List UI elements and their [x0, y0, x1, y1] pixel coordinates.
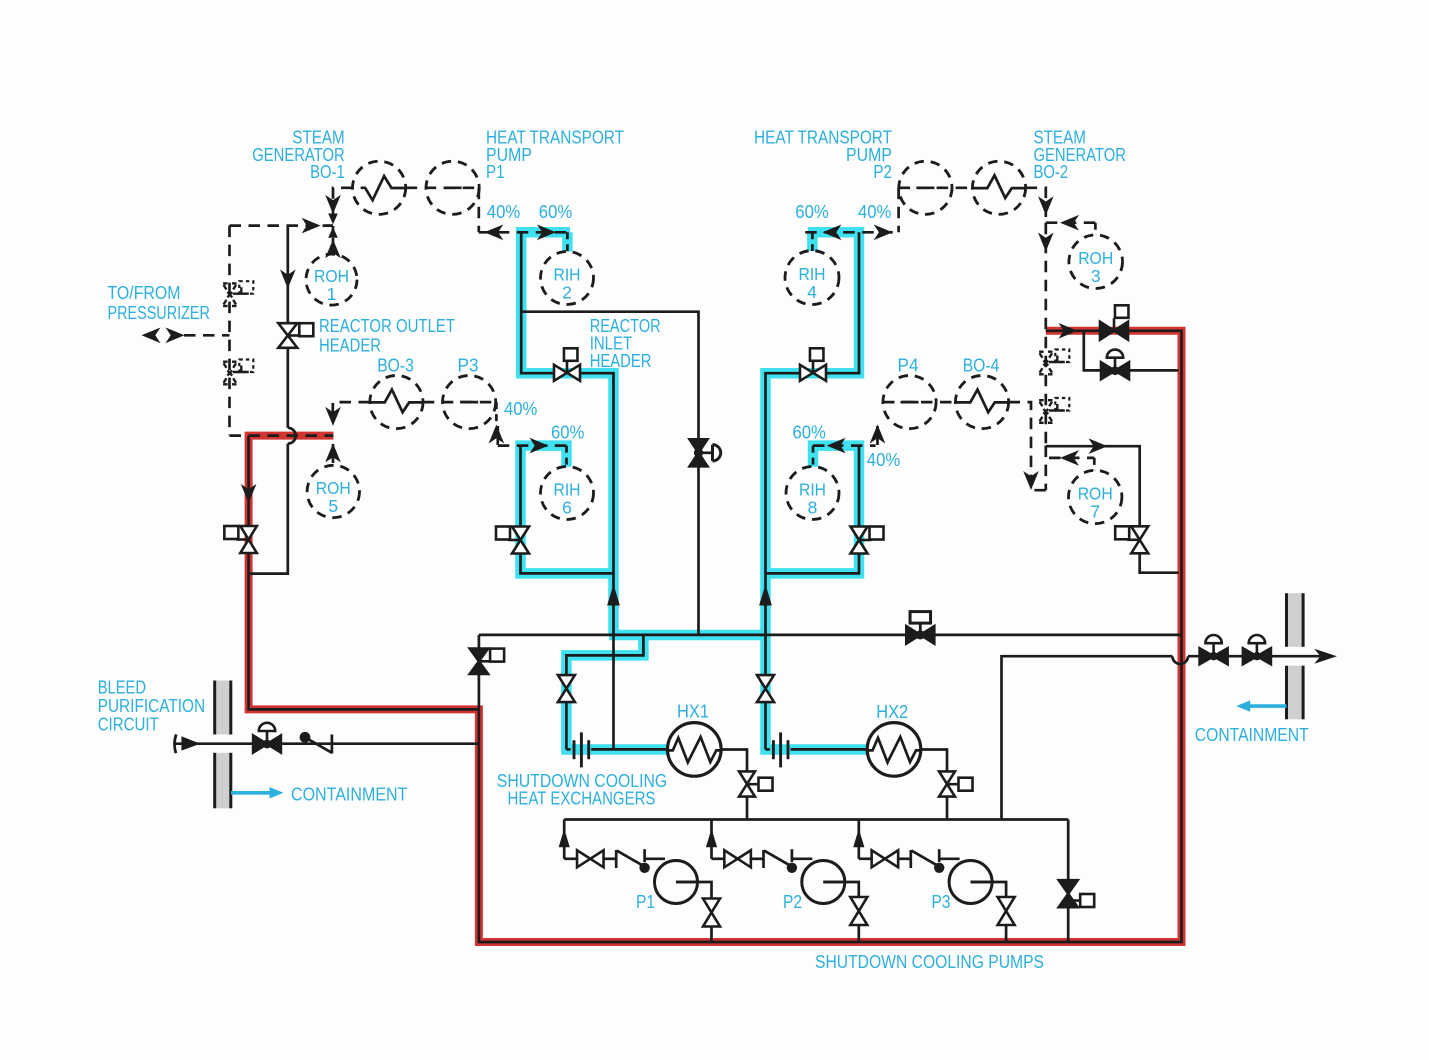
arrow: ROH5 up to red: [325, 443, 341, 462]
globe valve w/ dome: containment line 2: [1243, 635, 1271, 664]
header node RIH 6 (dashed circle): [541, 467, 594, 520]
flange/orifice set HX1 inlet: [574, 732, 589, 767]
arrow: into red line right: [1059, 323, 1078, 339]
svg-text:3: 3: [1091, 266, 1101, 286]
dashed valve: right standby lower: [1039, 398, 1069, 423]
svg-text:BO-2: BO-2: [1034, 162, 1069, 182]
wire: BO-3 dashed to red junction: [333, 402, 370, 419]
heat transport pump P3 (dashed circle): [443, 376, 496, 429]
svg-text:P2: P2: [873, 162, 892, 182]
cyan highlighted path: jog to HX1: [566, 630, 668, 750]
wire: jog centerline to HX1: [566, 635, 643, 750]
steam generator BO-3 (dashed circle w/ zigzag): [370, 376, 423, 429]
pump P3 suction/discharge piping: [859, 820, 1006, 943]
wire: P2 to BO-2 dashed connector: [899, 186, 973, 189]
wire: BO-1 to junction dashed: [333, 188, 353, 217]
pump P1 suction/discharge piping: [564, 820, 711, 943]
wire: P4 to BO-4 dashed connector: [883, 401, 956, 404]
valve: P1 discharge: [703, 899, 720, 927]
wire: reactor inlet header line (y=312): [521, 312, 698, 635]
wire: RIH6 loop black centerline: [521, 446, 615, 574]
arrow: 40% right (P2): [874, 225, 893, 241]
svg-text:5: 5: [328, 496, 338, 516]
arrow: from ROH1 up: [325, 239, 341, 258]
valve: main suction line (filled, x=920.3): [906, 612, 934, 644]
cyan highlighted path: RIH2 branch: [516, 227, 614, 635]
valve: HX1 inlet (x=566.4): [558, 675, 575, 702]
arrow: from BO-1 down: [325, 195, 341, 214]
wire: to/from pressurizer dashed stub: [184, 334, 230, 337]
svg-text:BO-3: BO-3: [377, 356, 414, 376]
svg-text:P3: P3: [932, 892, 951, 912]
svg-text:ROH: ROH: [1078, 248, 1113, 268]
header node ROH 5 (dashed circle): [307, 465, 359, 517]
header node ROH 3 (dashed circle): [1069, 235, 1123, 289]
svg-text:2: 2: [562, 283, 572, 303]
dashed valve pair: pressurizer line upper: [223, 281, 253, 306]
svg-text:P3: P3: [458, 356, 479, 376]
arrow: BO-4 jog down: [1023, 471, 1039, 490]
svg-text:REACTOR OUTLET: REACTOR OUTLET: [319, 316, 455, 336]
globe valve w/ dome: containment line 1: [1200, 635, 1228, 664]
svg-text:6: 6: [562, 498, 572, 518]
valve: reactor inlet header right (RIH4): [800, 348, 826, 381]
svg-text:BO-1: BO-1: [310, 162, 345, 182]
svg-text:ROH: ROH: [1078, 484, 1113, 504]
svg-text:PURIFICATION: PURIFICATION: [98, 696, 205, 716]
valve: HX2 inlet (x=765.5): [757, 675, 774, 702]
arrow: BO-2 down 2: [1038, 233, 1054, 252]
svg-text:BO-4: BO-4: [963, 356, 1000, 376]
arrow: 60% left (P2): [823, 225, 842, 241]
wire: red-line bypass w/ globe valve (top right): [1084, 331, 1179, 371]
pump P1 suction valve: [577, 850, 604, 867]
valve: reactor inlet header left (RIH2): [554, 348, 580, 381]
svg-text:7: 7: [1090, 502, 1100, 522]
arrow: P3 stub up: [489, 425, 505, 444]
wire: ROH5 stub dashed: [332, 444, 335, 466]
red highlighted shutdown-cooling flow path (thick red): [249, 331, 1182, 942]
svg-text:RIH: RIH: [554, 480, 581, 500]
valve: red line top right (filled, x=1114): [1100, 305, 1128, 340]
svg-text:P1: P1: [636, 892, 655, 912]
wire: P1 down-corner dashed: [477, 188, 480, 233]
svg-text:60%: 60%: [795, 201, 828, 222]
svg-text:8: 8: [808, 498, 818, 518]
steam generator BO-2 (dashed circle w/ zigzag): [972, 161, 1025, 214]
arrow: ROH3 left: [1060, 215, 1079, 231]
heat transport pump P2 (dashed circle): [899, 161, 952, 214]
steam generator BO-4 (dashed circle w/ zigzag): [955, 376, 1008, 429]
cyan arrow: containment left: [231, 787, 284, 798]
svg-text:SHUTDOWN COOLING PUMPS: SHUTDOWN COOLING PUMPS: [815, 952, 1044, 972]
svg-text:CONTAINMENT: CONTAINMENT: [1195, 725, 1309, 745]
svg-text:HX1: HX1: [677, 702, 709, 722]
arrow: 60% right (P1): [537, 225, 556, 241]
svg-text:P1: P1: [486, 162, 505, 182]
containment wall right (gray bars): [1287, 593, 1304, 719]
heat transport pump P1 (dashed circle): [426, 161, 479, 214]
dashed valve: right standby upper: [1039, 350, 1069, 375]
arrow: P2 drop up: [706, 829, 717, 848]
wire: BO-1 to P1 dashed connector: [406, 186, 480, 189]
svg-text:ROH: ROH: [316, 478, 351, 498]
globe valve w/ dome: red-line bypass: [1101, 350, 1129, 380]
shutdown cooling pump P2: [802, 861, 845, 904]
valve: P3 discharge: [998, 897, 1015, 925]
heat exchanger HX1: [668, 723, 722, 777]
valve: HX1 outlet (x=747): [739, 771, 773, 796]
arrow: ROH7 line right: [1089, 438, 1108, 454]
valve: main line left drop (filled, x=478.9): [470, 649, 504, 674]
svg-text:P2: P2: [783, 892, 802, 912]
wire: dashed vertical to red (right): [1044, 223, 1047, 446]
arrow: 40% left (P1): [484, 225, 503, 241]
cyan highlighted path: RIH6 loop: [521, 446, 615, 574]
arrow: into BO-1 junction: [302, 218, 321, 234]
valve: drain to red line (filled, x=1068.2): [1059, 880, 1095, 907]
cyan arrow: containment right: [1236, 700, 1286, 711]
svg-text:60%: 60%: [793, 422, 826, 443]
wire: 40/60 split dashed overlay (left): [479, 232, 570, 251]
arrow: 60% right toward RIH6: [530, 438, 549, 454]
svg-text:ROH: ROH: [314, 266, 349, 286]
cyan highlighted path: RIH4 branch to HX2: [766, 227, 869, 750]
wire: bleed purification line: [176, 742, 479, 745]
svg-text:BLEED: BLEED: [98, 678, 146, 698]
valve: junction BO-1/ROH-1 (filled needles): [323, 214, 338, 238]
header node ROH 7 (dashed circle): [1069, 470, 1122, 523]
wire: HX2 feed centerline: [766, 232, 860, 749]
svg-text:60%: 60%: [551, 422, 584, 443]
shutdown cooling pump P3: [949, 861, 992, 904]
wire: RIH8 loop black centerline: [766, 446, 860, 574]
globe valve w/ dome: bleed line: [253, 723, 281, 753]
arrow: down into pressurizer branch: [280, 270, 296, 289]
wire: red path centerline (bottom + right legs): [479, 331, 1182, 942]
wire: containment line through wall: [1188, 655, 1320, 658]
arrow: BO-3 down to red: [325, 407, 341, 426]
swing check valve: bleed line: [300, 732, 332, 754]
wire: main horizontal suction line: [479, 634, 1182, 637]
wire: pump suction header: [564, 818, 1068, 821]
svg-text:CIRCUIT: CIRCUIT: [98, 715, 159, 735]
svg-text:RIH: RIH: [799, 264, 826, 284]
wire: ROH1 stub dashed: [332, 226, 335, 255]
wire: ROH7 dashed horizontal: [1049, 457, 1094, 460]
svg-text:40%: 40%: [487, 201, 520, 222]
wire: containment line hop over red: [1172, 656, 1188, 664]
wire: 60% dashed overlay (left RIH6): [498, 446, 567, 467]
valve: on red left vertical (x=248.6): [224, 526, 257, 553]
arrow: BO-2 down 1: [1038, 196, 1054, 215]
svg-text:60%: 60%: [539, 201, 572, 222]
header node RIH 4 (dashed circle): [785, 251, 839, 305]
valve: RIH8 loop (x=859): [851, 527, 884, 554]
wire: pressurizer top dashed horizontal: [230, 224, 334, 227]
svg-text:40%: 40%: [504, 398, 537, 419]
header node ROH 1 (dashed circle): [306, 254, 357, 305]
valve: P2 discharge: [850, 897, 867, 925]
wire: HX1 outlet to pump header: [720, 750, 748, 820]
arrow: ROH7 dashed left: [1060, 450, 1079, 466]
control valve w/ diaphragm (x=698.5): [690, 439, 721, 466]
svg-text:PRESSURIZER: PRESSURIZER: [108, 303, 210, 323]
wire: HX1 feed vertical (x=613.5): [612, 635, 615, 750]
svg-text:HEAT EXCHANGERS: HEAT EXCHANGERS: [508, 789, 656, 809]
svg-text:P4: P4: [898, 356, 919, 376]
dashed valve: pressurizer line lower: [223, 360, 253, 385]
header node RIH 2 (dashed circle): [541, 252, 594, 305]
heat exchanger HX2: [867, 723, 921, 777]
wire: ROH7 branch to red line: [1046, 446, 1179, 573]
wire: x=1068 drain to red line: [1067, 820, 1070, 943]
wire: red path centerline (left leg): [249, 436, 479, 710]
cyan highlighted path: main suction header segment: [609, 630, 766, 641]
wire: BO-4 dashed jog: [1009, 402, 1046, 490]
wire: 40/60 split dashed overlay (right): [805, 232, 898, 251]
valve: ROH7 branch (x=1139.7): [1115, 526, 1148, 553]
arrow: cyan vertical left up: [607, 585, 620, 606]
wire: dashed overlay on red (reactor outlet header line): [230, 434, 334, 437]
arrow: P1 drop up: [559, 829, 570, 848]
cyan highlighted path: RIH8 loop: [766, 446, 860, 574]
svg-text:TO/FROM: TO/FROM: [108, 283, 181, 303]
pump P2 suction valve: [724, 850, 751, 867]
wire: BO-2 to junction dashed: [1026, 188, 1046, 217]
arrow: cyan vertical right up: [759, 585, 772, 606]
wire: dashed vertical below junction (right): [1044, 446, 1047, 491]
pump P2 suction/discharge piping: [712, 820, 859, 943]
svg-text:40%: 40%: [858, 201, 891, 222]
wire: HX2 inlet line w/ flange gap: [766, 748, 869, 751]
wire: pressurizer branch vertical w/ hop over red line: [250, 226, 296, 574]
flange/orifice set HX2 inlet: [773, 732, 788, 767]
svg-text:HX2: HX2: [876, 702, 908, 722]
bleed line inlet symbol: [174, 734, 200, 753]
valve: HX2 outlet (x=947): [939, 771, 973, 796]
arrow: down red left vertical: [241, 484, 257, 503]
shutdown cooling pump P1: [655, 861, 698, 904]
svg-text:RIH: RIH: [799, 480, 826, 500]
heat transport pump P4 (dashed circle): [883, 376, 936, 429]
svg-text:4: 4: [807, 282, 817, 302]
arrow: out to containment: [1314, 649, 1337, 664]
valve: RIH6 loop (x=520.5): [496, 527, 529, 554]
wire: ROH3 stub dashed: [1094, 223, 1097, 235]
wire: 60% dashed overlay (right RIH8): [813, 446, 876, 467]
arrow: P3 drop up: [853, 829, 864, 848]
svg-text:HEADER: HEADER: [319, 336, 381, 356]
pump P3 suction valve: [872, 850, 899, 867]
wire: HX2 outlet to pump header: [920, 750, 948, 820]
svg-text:40%: 40%: [867, 449, 900, 470]
containment wall left (gray bars): [215, 681, 231, 809]
wire: P2 down-corner dashed: [897, 188, 900, 233]
svg-text:HEADER: HEADER: [590, 351, 652, 371]
arrow: to/from pressurizer (double): [142, 328, 185, 344]
steam generator BO-1 (dashed circle w/ zigzag): [353, 161, 406, 214]
wire: ROH7 stub dashed: [1093, 458, 1096, 470]
wire: pressurizer dashed vertical: [228, 226, 231, 436]
wire: RIH2 loop black centerline: [521, 232, 613, 635]
wire: BO-3 to P3 dashed connector: [423, 401, 496, 404]
wire: P3 stub dashed (40%): [496, 402, 497, 446]
wire: HX1 inlet line w/ flange gap: [566, 748, 668, 751]
wire: P4 stub dashed (40%): [876, 426, 879, 446]
header node RIH 8 (dashed circle): [786, 467, 839, 520]
arrow: P4 stub up: [870, 425, 886, 444]
arrow: 60% left toward RIH8: [827, 438, 846, 454]
wire: ROH3 junction dashed horizontal: [1046, 221, 1096, 224]
svg-text:RIH: RIH: [554, 265, 581, 285]
valve: reactor outlet header isolation (x=287.8): [278, 323, 313, 348]
svg-text:CONTAINMENT: CONTAINMENT: [291, 785, 407, 805]
wire: header to containment line: [1002, 656, 1173, 819]
svg-text:1: 1: [327, 284, 337, 304]
